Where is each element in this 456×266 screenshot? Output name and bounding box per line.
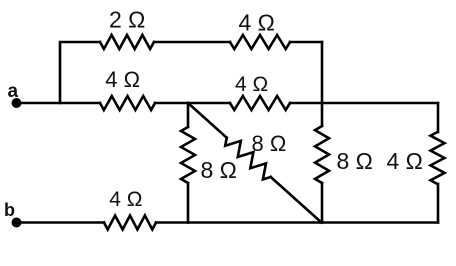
svg-text:4 Ω: 4 Ω bbox=[239, 10, 275, 36]
svg-text:8 Ω: 8 Ω bbox=[252, 131, 287, 156]
svg-text:8 Ω: 8 Ω bbox=[337, 148, 373, 174]
svg-text:4 Ω: 4 Ω bbox=[235, 73, 268, 96]
svg-text:b: b bbox=[4, 200, 15, 220]
svg-text:4 Ω: 4 Ω bbox=[109, 188, 142, 211]
svg-text:2 Ω: 2 Ω bbox=[109, 7, 145, 33]
svg-text:a: a bbox=[8, 81, 19, 102]
svg-text:4 Ω: 4 Ω bbox=[387, 148, 423, 174]
svg-text:4 Ω: 4 Ω bbox=[105, 67, 140, 92]
svg-text:8 Ω: 8 Ω bbox=[201, 157, 237, 183]
